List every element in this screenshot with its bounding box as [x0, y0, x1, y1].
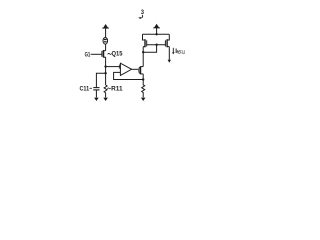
figure number 3 [141, 9, 144, 16]
current source I1 (circle with arrow) [103, 38, 108, 45]
ground arrow (below R12) [141, 98, 146, 101]
wire: Q16 source down to node [142, 74, 144, 80]
label R11 with tilde leader [107, 86, 123, 93]
wire: node to op-amp non-inverting input [106, 66, 121, 68]
svg-text:Q15: Q15 [112, 50, 123, 57]
transistor M1 (mirror left, diode connected) [143, 34, 147, 47]
current arrow IREF [172, 48, 175, 55]
wire: op-amp output [132, 68, 139, 70]
resistor R12 [142, 80, 145, 98]
wire: diode connection (gate to drain) [143, 45, 156, 53]
wire: current source to Q15 drain [105, 44, 107, 51]
supply arrow (left branch) [102, 24, 109, 38]
label G1 [85, 51, 91, 58]
wire: Q15 source down [105, 57, 107, 85]
wire: M2 drain output with arrowhead [168, 47, 171, 63]
transistor M2 (mirror right) [165, 34, 169, 47]
label Q15 with tilde leader [108, 50, 123, 57]
svg-text:REF1,2: REF1,2 [177, 49, 185, 54]
svg-text:C11: C11 [80, 86, 90, 93]
node: branch to C11 [104, 72, 106, 74]
op-amp U1 [119, 63, 131, 75]
node: feedback and R12 junction [142, 78, 144, 80]
wire: C11 to ground [95, 90, 97, 98]
wire: op-amp inverting input feedback [114, 72, 144, 79]
label C11 with tilde leader [80, 86, 92, 93]
wire: M1/M2 gate tie [147, 44, 166, 46]
ground arrow (below R11) [103, 98, 108, 101]
node: on M1 drain wire [142, 51, 144, 53]
leader arrow for figure number 3 [138, 15, 143, 19]
wire: R11 to ground [105, 93, 107, 98]
resistor R11 [104, 85, 107, 93]
supply arrow (mirror) [153, 24, 160, 35]
node: Q15 source to op-amp plus input [104, 65, 106, 67]
transistor Q15 [102, 50, 106, 58]
wire: node to capacitor C11 [96, 73, 105, 87]
svg-text:G1: G1 [85, 51, 91, 58]
supply rail (current mirror) [143, 33, 170, 35]
svg-text:R11: R11 [111, 86, 123, 93]
label IREF1,2 [175, 48, 185, 55]
node: gate tie junction [155, 44, 157, 46]
ground arrow (below C11) [94, 98, 99, 101]
transistor Q16 (op-amp driven) [139, 66, 143, 74]
wire: G1 to Q15 gate [91, 53, 102, 55]
capacitor C11 [93, 88, 99, 90]
wire: Q16 drain up to mirror [142, 47, 144, 67]
node: supply on rail [155, 33, 157, 35]
